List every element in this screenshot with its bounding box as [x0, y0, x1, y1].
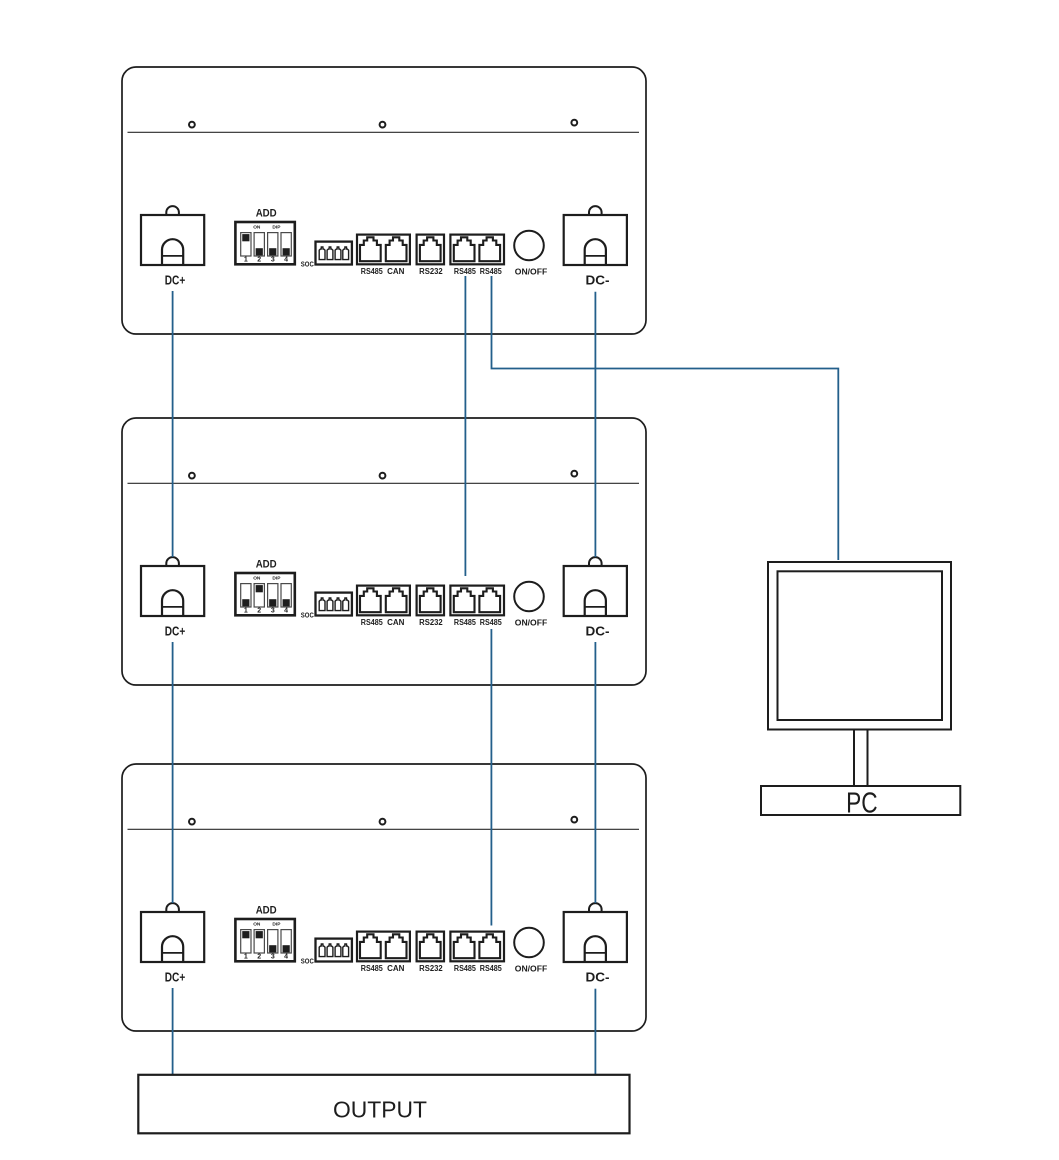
RS485 CAN dual RJ45 port module 3 [357, 932, 410, 962]
wire module1 DC+ to module2 DC+ [172, 291, 174, 557]
RS232 RJ45 port module 2 [417, 586, 444, 616]
svg-text:DIP: DIP [272, 224, 281, 230]
module 2 screw hole 3 [571, 471, 577, 477]
svg-text:RS485: RS485 [480, 618, 502, 627]
RS485 CAN dual RJ45 port module 1 [357, 235, 410, 265]
RS485 CAN dual RJ45 port module 2 [357, 586, 410, 616]
OUTPUT box [138, 1075, 629, 1134]
svg-text:3: 3 [271, 954, 275, 961]
wire module2 RS485 to module3 RS485 [490, 629, 492, 926]
RS485 CAN port labels module 1 [361, 267, 405, 276]
svg-text:RS232: RS232 [419, 964, 443, 973]
svg-text:4: 4 [284, 257, 288, 264]
module 3 screw hole 2 [380, 819, 386, 825]
wire module2 DC+ to module3 DC+ [172, 642, 174, 903]
DC+ terminal connector module 2 [141, 557, 204, 616]
module 1 screw hole 1 [189, 122, 195, 128]
svg-text:RS485: RS485 [480, 964, 502, 973]
svg-text:1: 1 [244, 954, 248, 961]
svg-text:CAN: CAN [387, 964, 405, 973]
wire module1 RS485 to PC [492, 276, 839, 560]
wire module3 DC+ to OUTPUT [172, 988, 174, 1075]
module 3 screw hole 1 [189, 819, 195, 825]
svg-text:2: 2 [257, 608, 261, 615]
svg-text:DIP: DIP [272, 575, 281, 581]
svg-text:RS485: RS485 [454, 267, 476, 276]
svg-text:ADD: ADD [256, 905, 277, 917]
SOC connector module 1 [316, 242, 352, 265]
DC- terminal connector module 2 [564, 557, 627, 616]
module 3 top trim line [128, 828, 640, 830]
svg-text:PC: PC [846, 788, 878, 820]
DC- terminal connector module 1 [564, 206, 627, 265]
RS232 RJ45 port module 1 [417, 235, 444, 265]
wire module1 DC- to module2 DC- [594, 292, 596, 557]
svg-text:RS485: RS485 [361, 267, 383, 276]
svg-text:ON/OFF: ON/OFF [515, 266, 548, 276]
svg-text:RS232: RS232 [419, 618, 443, 627]
svg-text:SOC: SOC [301, 260, 314, 269]
DIP switch ADD module 2 [235, 573, 294, 615]
RS485 RS485 port labels module 2 [454, 618, 502, 627]
SOC connector module 2 [316, 593, 352, 616]
svg-text:RS485: RS485 [361, 618, 383, 627]
svg-text:RS485: RS485 [361, 964, 383, 973]
RS485 RS485 dual RJ45 port module 3 [450, 932, 504, 962]
RS485 RS485 port labels module 1 [454, 267, 502, 276]
svg-text:RS232: RS232 [419, 267, 443, 276]
svg-text:1: 1 [244, 608, 248, 615]
svg-text:3: 3 [271, 257, 275, 264]
PC base box [761, 786, 960, 815]
ON/OFF button module 1 [514, 231, 544, 261]
module 2 screw hole 1 [189, 473, 195, 479]
DC+ terminal connector module 3 [141, 903, 204, 962]
svg-text:DC-: DC- [586, 624, 610, 639]
DC+ terminal connector module 1 [141, 206, 204, 265]
battery module 3 rear panel [122, 764, 646, 1031]
RS485 RS485 dual RJ45 port module 2 [450, 586, 504, 616]
svg-text:ON/OFF: ON/OFF [515, 617, 548, 627]
ON/OFF button module 3 [514, 928, 544, 958]
svg-text:OUTPUT: OUTPUT [333, 1097, 427, 1123]
svg-text:RS485: RS485 [454, 618, 476, 627]
RS485 RS485 port labels module 3 [454, 964, 502, 973]
svg-text:2: 2 [257, 954, 261, 961]
svg-text:CAN: CAN [387, 267, 405, 276]
battery module 2 rear panel [122, 418, 646, 685]
svg-text:4: 4 [284, 954, 288, 961]
svg-text:3: 3 [271, 608, 275, 615]
svg-text:CAN: CAN [387, 618, 405, 627]
svg-text:ON: ON [253, 224, 261, 230]
svg-text:RS485: RS485 [480, 267, 502, 276]
svg-text:ADD: ADD [256, 208, 277, 220]
PC monitor [768, 562, 951, 730]
PC monitor stand [854, 731, 868, 787]
RS485 CAN port labels module 3 [361, 964, 405, 973]
wire module1 RS485 to module2 RS485 [464, 276, 466, 576]
ON/OFF button module 2 [514, 582, 544, 612]
module 3 screw hole 3 [571, 817, 577, 823]
DIP switch ADD module 3 [235, 919, 294, 961]
module 2 top trim line [128, 482, 640, 484]
module 2 screw hole 2 [380, 473, 386, 479]
svg-text:DC-: DC- [586, 273, 610, 288]
svg-text:1: 1 [244, 257, 248, 264]
battery module 1 rear panel [122, 67, 646, 334]
svg-text:DC+: DC+ [165, 970, 186, 985]
svg-text:SOC: SOC [301, 611, 314, 620]
DIP switch ADD module 1 [235, 222, 294, 264]
svg-text:2: 2 [257, 257, 261, 264]
module 1 screw hole 2 [380, 122, 386, 128]
svg-text:DC+: DC+ [165, 624, 186, 639]
RS232 RJ45 port module 3 [417, 932, 444, 962]
svg-text:DC+: DC+ [165, 273, 186, 288]
RS485 CAN port labels module 2 [361, 618, 405, 627]
svg-text:ADD: ADD [256, 559, 277, 571]
module 1 top trim line [128, 131, 640, 133]
svg-text:4: 4 [284, 608, 288, 615]
SOC connector module 3 [316, 939, 352, 962]
wire module2 DC- to module3 DC- [594, 642, 596, 903]
module 1 screw hole 3 [571, 120, 577, 126]
svg-text:ON: ON [253, 575, 261, 581]
svg-text:ON/OFF: ON/OFF [515, 963, 548, 973]
wire module3 DC- to OUTPUT [594, 989, 596, 1075]
svg-text:DIP: DIP [272, 921, 281, 927]
svg-text:ON: ON [253, 921, 261, 927]
DC- terminal connector module 3 [564, 903, 627, 962]
svg-text:DC-: DC- [586, 970, 610, 985]
RS485 RS485 dual RJ45 port module 1 [450, 235, 504, 265]
svg-text:SOC: SOC [301, 957, 314, 966]
svg-text:RS485: RS485 [454, 964, 476, 973]
